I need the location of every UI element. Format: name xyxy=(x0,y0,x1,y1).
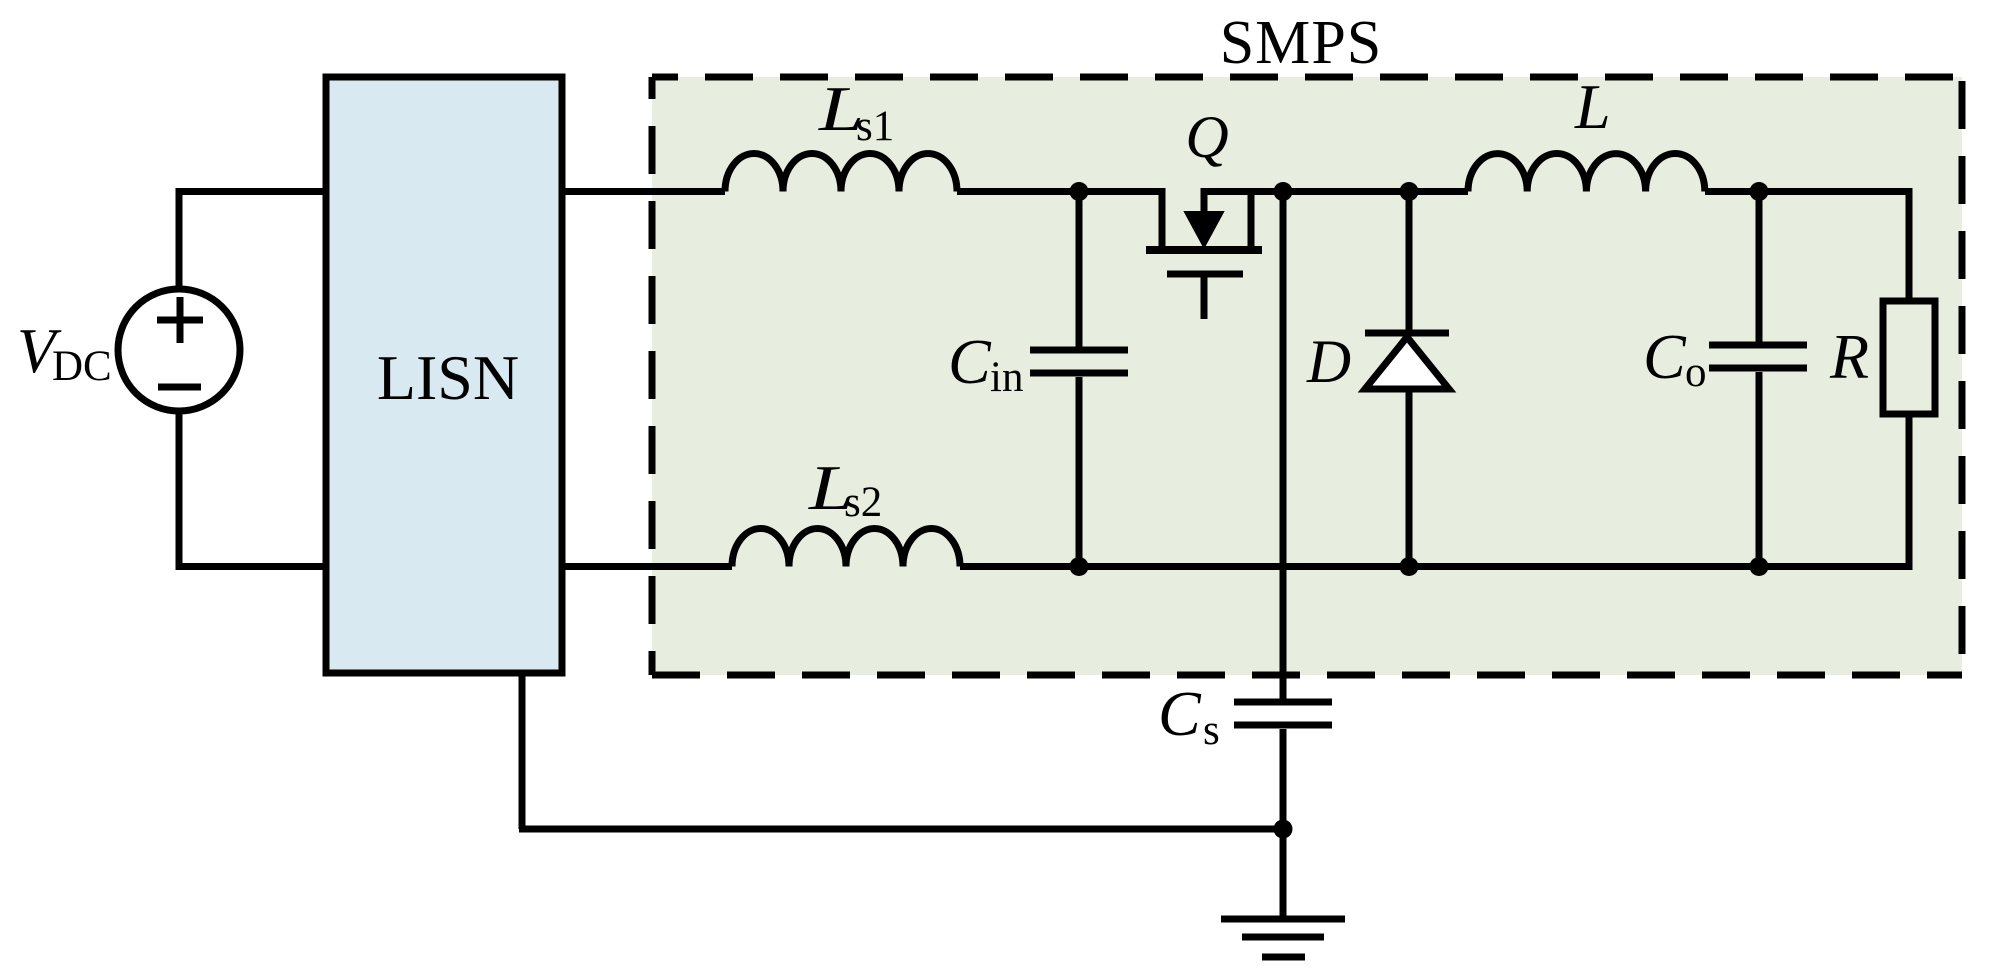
svg-text:s: s xyxy=(1203,707,1220,754)
wire: VDC bottom to LISN xyxy=(176,563,325,570)
svg-text:DC: DC xyxy=(52,343,112,390)
wire: Co vertical bottom xyxy=(1756,372,1763,570)
wire: LISN to Ls1 xyxy=(562,188,725,195)
svg-text:s1: s1 xyxy=(856,103,894,150)
diode triangle xyxy=(1365,337,1449,389)
node: diode bottom junction xyxy=(1400,557,1419,576)
ground xyxy=(1221,919,1345,957)
node: Co bottom junction xyxy=(1750,557,1769,576)
wire: ground horizontal xyxy=(519,826,1283,833)
svg-text:LISN: LISN xyxy=(377,342,519,413)
svg-text:in: in xyxy=(990,354,1023,401)
SMPS dashed border top xyxy=(652,74,1962,81)
svg-text:L: L xyxy=(1574,71,1611,142)
node: Cin top junction xyxy=(1070,182,1089,201)
svg-text:C: C xyxy=(948,326,992,397)
node: Co top junction xyxy=(1750,182,1769,201)
wire: Cin vertical top xyxy=(1076,191,1083,347)
diode top lead xyxy=(1406,191,1413,333)
LISN box xyxy=(326,77,562,673)
wire: right side down to R xyxy=(1906,188,1913,301)
wire: VDC vertical top xyxy=(176,188,183,286)
inductor Ls1 xyxy=(725,154,957,192)
wire: R bottom down xyxy=(1906,414,1913,570)
inductor Ls2 xyxy=(732,529,960,567)
minus sign xyxy=(158,384,201,391)
bottom wire: Ls2 to R xyxy=(960,563,1912,570)
wire: Ls1 to MOSFET xyxy=(957,188,1165,195)
inductor L xyxy=(1468,154,1705,192)
channel bar xyxy=(1146,246,1262,254)
wire: Cs bottom vertical xyxy=(1280,729,1287,916)
arrow stem xyxy=(1201,188,1208,214)
wire: MOSFET to L xyxy=(1202,188,1468,195)
node: Cs top junction xyxy=(1274,182,1293,201)
diode D xyxy=(1365,191,1449,570)
svg-text:Q: Q xyxy=(1185,104,1228,170)
wire: LISN ground stub xyxy=(519,674,526,829)
SMPS dashed border right xyxy=(1959,77,1966,675)
wire: VDC top to LISN xyxy=(179,188,324,195)
diode bottom lead xyxy=(1406,389,1413,570)
svg-text:C: C xyxy=(1643,321,1687,392)
wire: Cs vertical through box xyxy=(1280,191,1287,699)
capacitor Co xyxy=(1709,345,1807,368)
capacitor Cin xyxy=(1030,350,1128,373)
transistor Q (MOSFET) xyxy=(1146,188,1262,319)
gate stub xyxy=(1201,277,1208,319)
svg-text:D: D xyxy=(1306,329,1351,396)
cathode bar xyxy=(1365,330,1449,337)
wire: L to R corner xyxy=(1705,188,1909,195)
bottom wire: LISN to Ls2 xyxy=(562,563,732,570)
plus sign xyxy=(157,297,203,343)
capacitor Cs xyxy=(1234,702,1332,725)
svg-text:o: o xyxy=(1685,349,1707,396)
svg-text:SMPS: SMPS xyxy=(1220,9,1383,77)
drain lead xyxy=(1248,188,1255,246)
wire: Co vertical top xyxy=(1756,191,1763,342)
SMPS dashed border left xyxy=(649,77,656,675)
wire: Cin vertical bottom xyxy=(1076,377,1083,570)
SMPS dashed border bottom xyxy=(652,672,1962,679)
node: ground junction xyxy=(1274,820,1293,839)
wire: VDC vertical bottom xyxy=(176,414,183,570)
voltage source VDC xyxy=(118,289,240,411)
resistor R xyxy=(1883,301,1935,414)
SMPS box green fill xyxy=(652,77,1962,675)
svg-text:R: R xyxy=(1829,321,1869,392)
gate bar xyxy=(1167,271,1243,278)
source lead xyxy=(1159,188,1166,246)
arrow head xyxy=(1185,212,1223,247)
svg-text:s2: s2 xyxy=(844,479,882,526)
node: Cin bottom junction xyxy=(1070,557,1089,576)
svg-text:C: C xyxy=(1158,678,1202,749)
node: diode top junction xyxy=(1400,182,1419,201)
